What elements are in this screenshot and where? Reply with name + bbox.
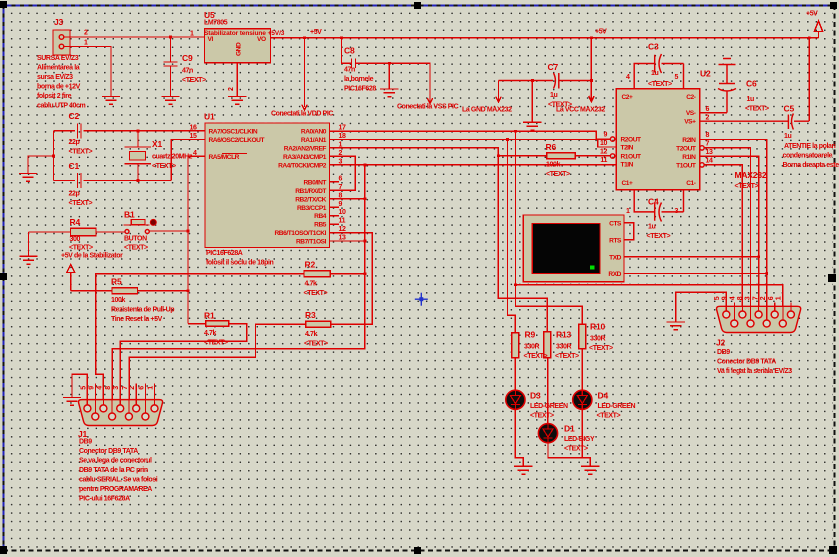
svg-text:VS+: VS+ (684, 118, 696, 125)
svg-text:J3: J3 (54, 17, 64, 27)
svg-text:1u: 1u (784, 133, 791, 140)
svg-text:<TEXT>: <TEXT> (69, 200, 93, 207)
wire pin13 stub to node (330, 240, 365, 242)
svg-text:15: 15 (190, 133, 197, 140)
resistor R9 (512, 333, 519, 358)
svg-text:3: 3 (113, 386, 120, 390)
wire J3.2 to U5.VI (64, 36, 205, 38)
wire +5V to VCC MAX232 arrow (589, 38, 594, 102)
svg-text:T2OUT: T2OUT (676, 145, 696, 152)
wire pin10 stub (330, 215, 339, 217)
LED D4 (573, 390, 592, 409)
svg-text:5: 5 (80, 386, 87, 390)
pin bubble 14 (700, 163, 704, 167)
svg-text:4: 4 (193, 150, 197, 157)
+5V rail from U5.VO (271, 37, 819, 39)
wire U1 pin18 to MAX232 pin10 (330, 140, 617, 148)
wire pin8 stub to node (330, 198, 365, 200)
svg-text:8: 8 (706, 132, 710, 139)
wire R2 left to J1 pin4 (96, 274, 304, 409)
wire J3.1 to ground (64, 47, 111, 97)
ground at J2 (667, 322, 685, 330)
svg-text:11: 11 (600, 157, 607, 164)
wire pin18 branch to R9 (508, 140, 516, 333)
svg-text:VS-: VS- (686, 110, 696, 117)
svg-text:T2IN: T2IN (621, 145, 634, 152)
svg-text:PIC16F628A: PIC16F628A (206, 250, 243, 257)
svg-text:4: 4 (729, 296, 736, 300)
svg-text:R2IN: R2IN (682, 137, 696, 144)
svg-text:Conectati la VSS PIC: Conectati la VSS PIC (397, 104, 459, 111)
LED D3 (506, 390, 525, 409)
svg-text:<TEXT>: <TEXT> (564, 446, 588, 453)
svg-text:TXD: TXD (609, 254, 622, 261)
svg-text:La GND MAX232: La GND MAX232 (462, 107, 512, 114)
capacitor C9 (164, 37, 178, 97)
svg-text:RB2/TX/CK: RB2/TX/CK (295, 196, 326, 203)
ground at J1 (63, 398, 81, 406)
svg-text:<TEXT>: <TEXT> (182, 77, 206, 84)
svg-text:X1: X1 (152, 139, 162, 149)
svg-text:la bornele: la bornele (344, 76, 374, 83)
svg-text:C1-: C1- (686, 180, 696, 187)
svg-text:U1: U1 (204, 112, 215, 122)
ground under C9 (161, 97, 179, 105)
svg-text:+5V: +5V (310, 29, 322, 36)
svg-text:RA1/AN1: RA1/AN1 (301, 137, 327, 144)
capacitor C3 (634, 54, 683, 89)
svg-text:R4: R4 (70, 217, 81, 227)
svg-text:+5V de la Stabilizator: +5V de la Stabilizator (61, 253, 123, 260)
svg-text:4: 4 (96, 386, 103, 390)
svg-text:330R: 330R (556, 344, 571, 351)
wire R9 to D3 (514, 358, 516, 390)
svg-text:CTS: CTS (609, 221, 622, 228)
wire C2/C1 left rail (53, 131, 55, 181)
svg-text:12: 12 (600, 149, 607, 156)
junction C9 on +12V wire (169, 36, 172, 39)
svg-text:PIC16F628: PIC16F628 (344, 86, 376, 93)
svg-text:300: 300 (70, 236, 81, 243)
svg-text:RA3/AN3/CMP1: RA3/AN3/CMP1 (283, 154, 327, 161)
svg-text:R3: R3 (305, 310, 316, 320)
svg-text:<TEXT>: <TEXT> (524, 353, 548, 360)
svg-text:cuartz 20MHz: cuartz 20MHz (152, 154, 193, 161)
svg-text:R1OUT: R1OUT (621, 154, 642, 161)
svg-text:Alimentarea la: Alimentarea la (37, 65, 80, 72)
crystal X1 (125, 131, 152, 181)
svg-text:cablu SERIAL. Se va folosi: cablu SERIAL. Se va folosi (79, 477, 158, 484)
svg-text:RA7/OSC1/CLKIN: RA7/OSC1/CLKIN (209, 129, 258, 136)
svg-text:C9: C9 (182, 53, 193, 63)
svg-text:R10: R10 (590, 322, 605, 332)
svg-text:LED-GREEN: LED-GREEN (530, 403, 568, 410)
svg-text:<TEXT>: <TEXT> (152, 163, 176, 170)
svg-text:T1IN: T1IN (621, 161, 634, 168)
wire crystal row to U1 pin 15 (171, 140, 204, 181)
node VDD dropper wire (302, 38, 307, 110)
svg-text:Conector DB9 TATA: Conector DB9 TATA (79, 448, 138, 455)
capacitor C8 (340, 37, 433, 104)
svg-text:Se va lega de conectorul: Se va lega de conectorul (79, 458, 152, 465)
connector J2 DB9 (717, 303, 801, 333)
power +5V arrow to R5 (67, 265, 75, 291)
svg-text:Rezistenta de Pull-Up: Rezistenta de Pull-Up (111, 307, 174, 314)
regulator U5 (205, 29, 271, 63)
svg-text:U2: U2 (700, 69, 711, 79)
svg-text:C6: C6 (746, 79, 757, 89)
svg-text:<TEXT>: <TEXT> (124, 245, 148, 252)
svg-text:47n: 47n (182, 68, 193, 75)
wire terminal RXD to R2IN net (624, 273, 767, 275)
svg-text:1u: 1u (651, 70, 658, 77)
svg-text:R1IN: R1IN (682, 154, 696, 161)
svg-text:1: 1 (148, 386, 155, 390)
pin bubble 12 (610, 154, 614, 158)
svg-text:DB9: DB9 (79, 439, 92, 446)
svg-text:D1: D1 (564, 424, 575, 434)
ground for C8 (388, 63, 390, 89)
svg-text:DB9 TATA de la PC prin: DB9 TATA de la PC prin (79, 467, 148, 474)
wire terminal CTS-RTS loop (624, 223, 634, 240)
wire D4/D1 to ground (547, 409, 590, 466)
svg-text:Tine Reset la +5V: Tine Reset la +5V (111, 316, 163, 323)
svg-text:8: 8 (737, 296, 744, 300)
wire C7 node to ground (531, 81, 533, 123)
wire terminal TXD to R1IN net (624, 256, 759, 258)
svg-text:8: 8 (105, 386, 112, 390)
svg-text:D4: D4 (598, 391, 609, 401)
svg-text:pentru PROGRAMAREA: pentru PROGRAMAREA (79, 486, 152, 493)
svg-text:C2: C2 (69, 111, 80, 121)
capacitor C1 (54, 173, 172, 188)
svg-text:2: 2 (84, 30, 88, 37)
resistor R4 (29, 228, 97, 256)
virtual terminal (523, 215, 624, 282)
svg-text:LED-BIGY: LED-BIGY (564, 436, 595, 443)
resistor R1 (188, 321, 229, 327)
ground under R4 (19, 256, 37, 264)
svg-text:13: 13 (706, 149, 713, 156)
pin bubble 7 (700, 146, 704, 150)
chip U1 PIC16F628A (205, 123, 330, 248)
capacitor C2 (54, 124, 205, 139)
ground under J3 wire (102, 97, 120, 105)
svg-text:C7: C7 (548, 62, 559, 72)
ground MAX232 (523, 122, 541, 130)
svg-text:C3: C3 (648, 42, 659, 52)
svg-text:C4: C4 (648, 197, 659, 207)
svg-text:<TEXT>: <TEXT> (530, 413, 554, 420)
svg-text:RB7/T1OSI: RB7/T1OSI (296, 239, 327, 246)
svg-text:LM7805: LM7805 (204, 20, 228, 27)
resistor R6 (498, 153, 610, 159)
svg-text:RA2/AN2/VREF: RA2/AN2/VREF (284, 146, 327, 153)
pin bubble 9 (610, 137, 614, 141)
wire U1 pin3 to MAX232 T1IN (330, 164, 617, 166)
origin marker crosshair (415, 293, 428, 306)
svg-text:9: 9 (722, 296, 729, 300)
wire U1 pin4 RA5/MCLR stub (188, 156, 205, 323)
svg-text:cablu UTP 40cm: cablu UTP 40cm (37, 103, 86, 110)
svg-text:J1: J1 (78, 429, 88, 439)
svg-text:C1+: C1+ (622, 180, 634, 187)
chip U2 MAX232 (616, 89, 699, 190)
svg-text:330R: 330R (524, 344, 539, 351)
resistor R3 (306, 321, 331, 327)
svg-text:7: 7 (752, 296, 759, 300)
svg-text:11: 11 (339, 218, 346, 225)
svg-text:6: 6 (768, 296, 775, 300)
svg-text:RB6/T1OSO/T1CKI: RB6/T1OSO/T1CKI (274, 230, 326, 237)
svg-text:Va fi legat la seriala EV/Z3: Va fi legat la seriala EV/Z3 (717, 368, 792, 375)
svg-text:RA5/MCLR: RA5/MCLR (209, 154, 240, 161)
wire C5 to +5V rail (808, 38, 810, 121)
svg-text:D3: D3 (530, 391, 541, 401)
svg-text:6: 6 (138, 386, 145, 390)
svg-text:RB1/RX/DT: RB1/RX/DT (295, 188, 326, 195)
svg-text:RA6/OSC2/CLKOUT: RA6/OSC2/CLKOUT (209, 137, 265, 144)
wire pin9 stub (330, 206, 339, 208)
svg-text:<TEXT>: <TEXT> (647, 233, 671, 240)
wire J1 pin5 to ground (72, 374, 87, 405)
resistor R5 (71, 288, 188, 294)
svg-text:2: 2 (129, 386, 136, 390)
svg-text:RB0/INT: RB0/INT (304, 179, 327, 186)
U5 GND pin wire (236, 63, 238, 97)
svg-text:C8: C8 (344, 46, 355, 56)
svg-text:T1OUT: T1OUT (676, 162, 696, 169)
svg-text:GND: GND (236, 42, 243, 56)
svg-text:SURSA EV/Z3: SURSA EV/Z3 (37, 55, 79, 62)
wire C7 left to GND arrow (496, 81, 501, 103)
svg-text:<TEXT>: <TEXT> (69, 149, 93, 156)
svg-text:10: 10 (339, 209, 346, 216)
svg-text:<TEXT>: <TEXT> (597, 413, 621, 420)
svg-text:22p: 22p (69, 139, 80, 146)
svg-text:RXD: RXD (608, 271, 621, 278)
svg-text:Conectati la VDD PIC: Conectati la VDD PIC (271, 111, 333, 118)
svg-text:1u: 1u (648, 224, 655, 231)
connector J3 (53, 30, 70, 55)
svg-text:<TEXT>: <TEXT> (304, 290, 328, 297)
svg-text:1: 1 (84, 40, 88, 47)
svg-text:sursa EV/Z3: sursa EV/Z3 (37, 74, 73, 81)
svg-text:R5: R5 (111, 277, 122, 287)
svg-text:+5V: +5V (806, 11, 818, 18)
svg-text:RB3/CCP1: RB3/CCP1 (297, 205, 327, 212)
wire R10 to D4 (581, 349, 583, 390)
svg-text:Conector DB9 TATA: Conector DB9 TATA (717, 359, 776, 366)
svg-text:R6: R6 (546, 142, 557, 152)
svg-text:RTS: RTS (609, 237, 622, 244)
svg-text:<TEXT>: <TEXT> (745, 106, 769, 113)
svg-text:+5V: +5V (595, 29, 607, 36)
wire U2 pin14 T1OUT to J2 (704, 165, 742, 311)
wire R13 to D1 (547, 358, 549, 424)
J1 pin digits (80, 386, 154, 390)
svg-text:1: 1 (626, 208, 630, 215)
svg-text:condensatoarele: condensatoarele (783, 153, 833, 160)
wire U2 pin13 R1IN to J2 (700, 156, 759, 311)
ground under D4 (581, 466, 599, 474)
wire pin6 stub (330, 181, 339, 183)
svg-text:<TEXT>: <TEXT> (546, 171, 570, 178)
wire net to J2 pin6 (516, 285, 783, 320)
svg-text:2: 2 (760, 296, 767, 300)
resistor R2 (304, 271, 365, 277)
svg-text:J2: J2 (716, 338, 726, 348)
wire R3 left to J1 pin7 (129, 324, 305, 416)
J2 pin digits (714, 296, 783, 300)
svg-text:Stabilizator tensiune +5V/3: Stabilizator tensiune +5V/3 (204, 30, 285, 37)
svg-text:<TEXT>: <TEXT> (735, 183, 759, 190)
svg-text:7: 7 (122, 386, 129, 390)
svg-text:3: 3 (675, 208, 679, 215)
svg-text:RA0/AN0: RA0/AN0 (301, 129, 327, 136)
svg-text:C1: C1 (69, 161, 80, 171)
svg-text:<TEXT>: <TEXT> (648, 81, 672, 88)
svg-text:R2: R2 (305, 260, 316, 270)
capacitor C7 (499, 73, 592, 89)
svg-text:1u: 1u (747, 96, 754, 103)
button B1 (96, 219, 188, 233)
svg-text:5: 5 (675, 74, 679, 81)
wire U1 pin1 down to R6 node and R13 (330, 148, 548, 332)
svg-text:47n: 47n (344, 67, 355, 74)
svg-text:C5: C5 (784, 104, 795, 114)
svg-text:2: 2 (706, 115, 710, 122)
svg-text:<TEXT>: <TEXT> (204, 340, 228, 347)
svg-text:1u: 1u (550, 92, 557, 99)
svg-text:DB9: DB9 (717, 349, 730, 356)
ground under U5 (228, 97, 246, 105)
svg-text:2: 2 (228, 87, 235, 91)
svg-text:330R: 330R (590, 336, 605, 343)
capacitor C6 with top bar (718, 59, 736, 113)
svg-text:folosit 2 fire: folosit 2 fire (37, 93, 72, 100)
svg-text:PIC-ului 16F628A: PIC-ului 16F628A (79, 496, 130, 503)
svg-text:4.7k: 4.7k (305, 281, 318, 288)
wire U1 pin12 down to R3 right (330, 233, 373, 325)
svg-text:BUTON: BUTON (124, 236, 147, 243)
ground left of C1/C2 (19, 174, 37, 182)
svg-text:<TEXT>: <TEXT> (589, 345, 613, 352)
wire U1 pin2 to pin7 (330, 156, 356, 190)
svg-text:B1: B1 (124, 210, 135, 220)
svg-text:4: 4 (626, 74, 630, 81)
svg-text:RB4: RB4 (314, 213, 327, 220)
svg-text:R9: R9 (525, 330, 536, 340)
svg-text:4.7k: 4.7k (305, 331, 318, 338)
svg-text:R13: R13 (556, 330, 571, 340)
svg-text:<TEXT>: <TEXT> (69, 245, 93, 252)
svg-text:VO: VO (257, 36, 266, 43)
wire U2 VS- to C6 (700, 112, 727, 114)
ground under D3 (514, 466, 532, 474)
resistor R13 (544, 332, 551, 358)
svg-text:16: 16 (190, 125, 197, 132)
svg-text:<TEXT>: <TEXT> (555, 353, 579, 360)
svg-text:1: 1 (190, 31, 194, 38)
svg-text:R1: R1 (204, 311, 215, 321)
svg-text:14: 14 (706, 157, 713, 164)
svg-text:C2+: C2+ (622, 94, 634, 101)
svg-text:6: 6 (339, 175, 343, 182)
svg-text:C2-: C2- (686, 94, 696, 101)
wire pin17 branch to R10 (516, 131, 583, 324)
wire U2 pin8 R2IN to J2 (700, 140, 767, 321)
svg-text:ATENTIE la polari: ATENTIE la polari (784, 143, 836, 150)
wire pin11 stub (330, 223, 339, 225)
wire U1 pin17 to MAX232 pin9 (330, 131, 611, 139)
capacitor C4 (634, 190, 683, 222)
wire to ground (28, 156, 54, 174)
svg-text:100k: 100k (111, 297, 125, 304)
svg-text:VI: VI (208, 36, 214, 43)
svg-text:3: 3 (745, 296, 752, 300)
svg-text:5: 5 (714, 296, 721, 300)
svg-text:LED-GREEN: LED-GREEN (598, 403, 636, 410)
svg-text:9: 9 (604, 132, 608, 139)
svg-text:Borna dreapta este: Borna dreapta este (783, 162, 839, 169)
svg-text:22p: 22p (69, 191, 80, 198)
wire J2 pin5 to ground (676, 292, 727, 322)
svg-text:1: 1 (776, 296, 783, 300)
svg-text:<TEXT>: <TEXT> (304, 341, 328, 348)
resistor R10 (579, 324, 586, 349)
svg-text:6: 6 (706, 106, 710, 113)
svg-text:<TEXT>: <TEXT> (548, 102, 572, 109)
svg-text:7: 7 (706, 141, 710, 148)
svg-text:U5: U5 (204, 10, 215, 20)
wire D3 to ground (515, 409, 523, 466)
svg-text:RB5: RB5 (314, 222, 327, 229)
svg-text:10: 10 (600, 140, 607, 147)
capacitor C5 (700, 114, 810, 130)
svg-text:100k: 100k (546, 162, 560, 169)
svg-text:9: 9 (88, 386, 95, 390)
svg-text:RA4/T0CKI/CMP2: RA4/T0CKI/CMP2 (278, 163, 327, 170)
svg-text:R2OUT: R2OUT (621, 137, 642, 144)
wire U2 pin7 T2OUT to J2 (704, 148, 750, 320)
svg-text:borna de +12V: borna de +12V (37, 84, 81, 91)
wire node vertical pin3/pin8/pin13/R2 to J1 pin8 (112, 165, 365, 417)
connector J1 DB9 (79, 384, 163, 426)
svg-text:4.7k: 4.7k (204, 330, 217, 337)
wire R1 right to J1 pin3 (120, 324, 246, 409)
LED D1 (538, 424, 557, 443)
svg-text:9: 9 (339, 201, 343, 208)
power +5V arrow top right (814, 21, 822, 38)
svg-text:folosit il soclu de 18pin: folosit il soclu de 18pin (206, 260, 274, 267)
